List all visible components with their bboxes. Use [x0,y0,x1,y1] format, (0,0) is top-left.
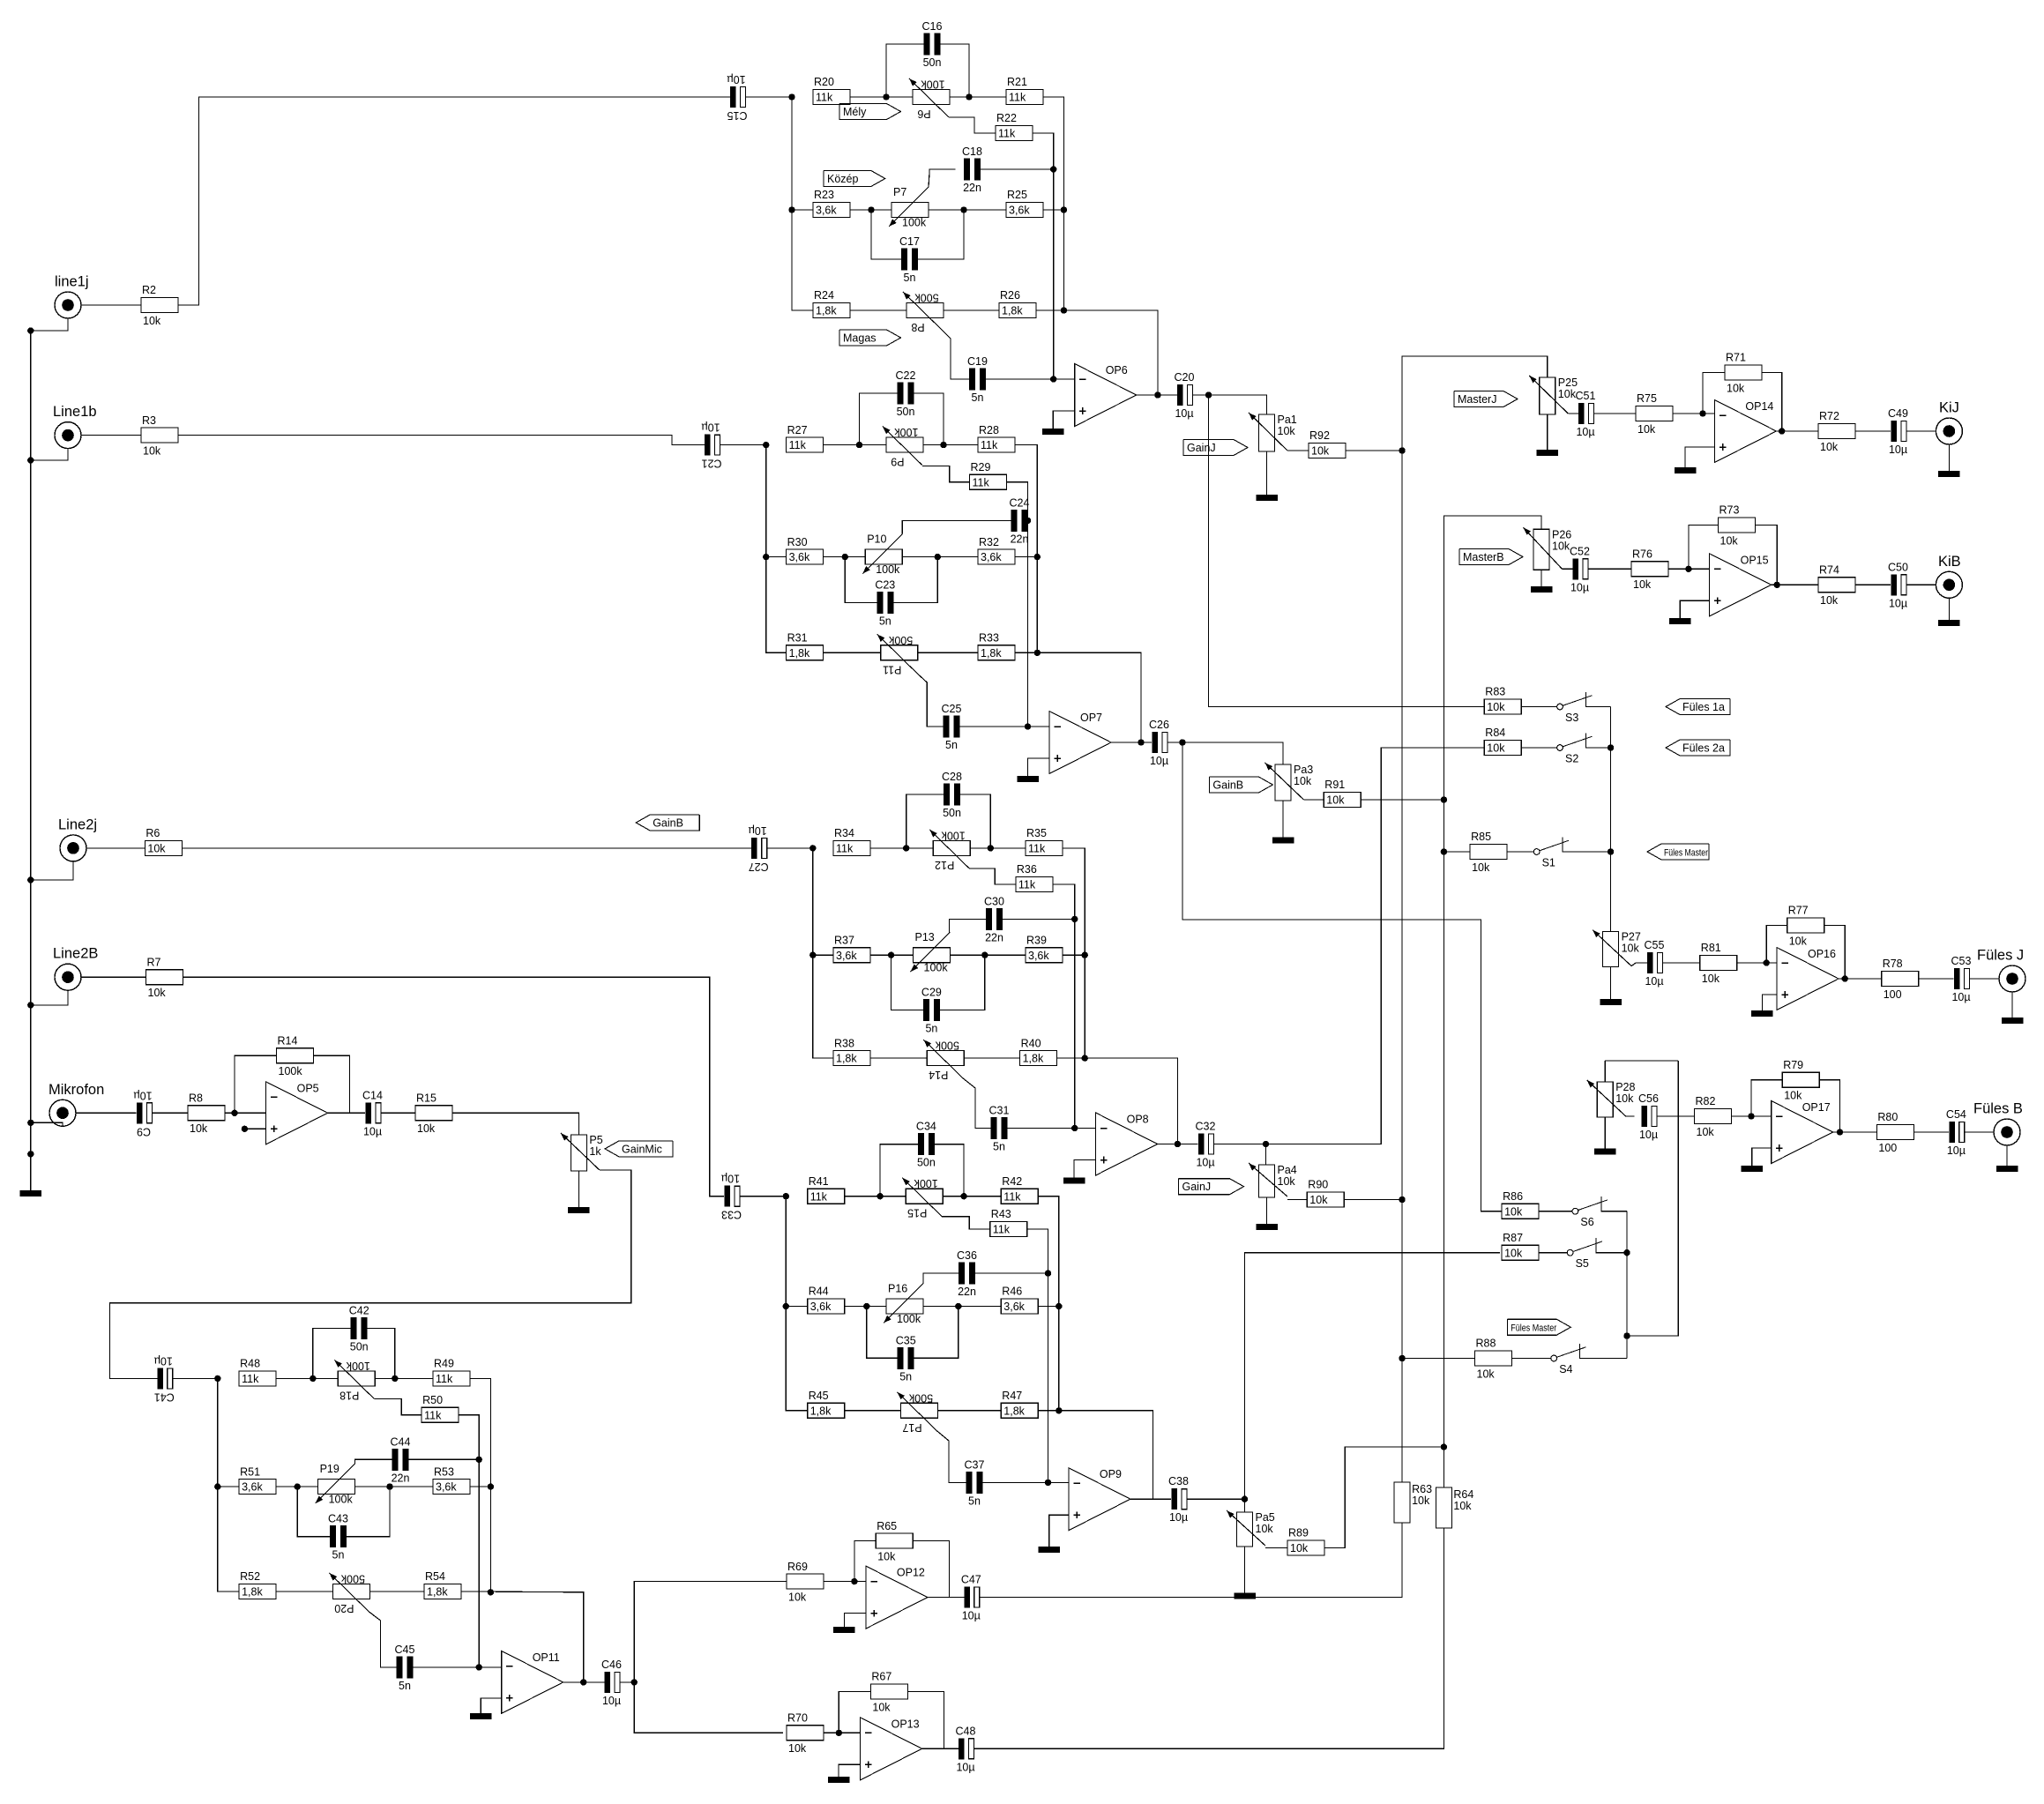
wire [824,556,866,558]
svg-text:10k: 10k [1558,388,1577,400]
potentiometer P12 [929,829,970,871]
svg-text:MasterJ: MasterJ [1458,393,1496,406]
wire riser to P28 [1604,1061,1606,1082]
capacitor C31 [989,1105,1010,1153]
resistor R87 [1502,1232,1539,1260]
svg-text:GainMic: GainMic [622,1143,662,1155]
wire R14 to OP5 out [314,1055,350,1113]
capacitor C29 [921,987,942,1035]
junction [231,1110,237,1116]
wire C42 right [368,1328,395,1378]
svg-text:C47: C47 [961,1574,981,1586]
svg-text:R21: R21 [1007,76,1027,88]
resistor R83 [1484,686,1521,714]
resistor R74 [1818,564,1855,608]
svg-text:10µ: 10µ [1576,426,1594,438]
wire [76,1112,137,1114]
wire [845,1410,901,1412]
svg-text:OP11: OP11 [533,1651,560,1664]
wire [1361,799,1443,801]
wire [218,1486,239,1487]
ground Pa4 [1256,1224,1278,1230]
op-amp OP14 [1714,400,1776,463]
junction [1025,518,1031,524]
wire [1833,1131,1877,1133]
svg-text:11k: 11k [816,92,833,104]
potentiometer P14 [923,1040,964,1082]
capacitor C26 [1149,719,1169,767]
wire Line1b to C21 [178,436,705,445]
op-amp OP12 [866,1566,928,1629]
svg-text:S6: S6 [1580,1216,1593,1228]
junction [27,1151,34,1157]
wire [766,556,787,558]
svg-text:10k: 10k [1820,441,1839,453]
junction [476,1664,482,1670]
svg-text:22n: 22n [963,182,981,194]
potentiometer P8 [903,292,944,334]
svg-text:100k: 100k [279,1065,303,1077]
svg-text:Mikrofon: Mikrofon [48,1082,104,1098]
wire [1906,584,1936,585]
junction [1608,744,1614,750]
svg-text:5n: 5n [399,1680,411,1692]
wire C35 right [914,1307,959,1359]
capacitor C17 [899,235,920,284]
net flag MasterJ [1454,391,1518,407]
svg-text:11k: 11k [998,128,1016,140]
svg-text:P13: P13 [915,931,935,943]
potentiometer Pa3 [1265,763,1314,801]
wire C36 right [975,1272,1048,1274]
connector jack line1j [55,274,89,319]
wire R33 to OP7 out [1015,652,1141,742]
ground P27 [1600,999,1622,1005]
svg-text:50n: 50n [897,406,915,418]
resistor R71 [1725,352,1762,395]
svg-text:P14: P14 [929,1069,948,1081]
switch S3 [1557,692,1593,724]
svg-text:R40: R40 [1021,1037,1041,1049]
svg-text:R64: R64 [1453,1488,1473,1501]
svg-text:11k: 11k [424,1409,442,1421]
wire C28 right [960,794,990,848]
svg-text:10k: 10k [143,444,161,457]
resistor R40 [1020,1037,1057,1065]
wire P28 gnd stub [1604,1117,1606,1149]
svg-text:500k: 500k [908,1391,933,1404]
wire P19 wiper to C44 [355,1459,392,1464]
ground Fules B [1996,1166,2018,1172]
capacitor C45 [395,1644,415,1692]
svg-text:10k: 10k [1311,445,1330,458]
ground P26 [1531,586,1553,593]
wire MasterJ to P25 [1402,356,1548,451]
svg-text:Magas: Magas [843,332,877,344]
wire [355,1486,433,1487]
op-amp OP16 [1777,948,1839,1010]
wire C25 to OP7 minus [960,726,1050,727]
potentiometer P13 [911,931,951,974]
svg-text:R67: R67 [871,1671,891,1683]
wire C28 left [906,794,944,848]
svg-text:P10: P10 [867,533,886,546]
capacitor C51 [1576,390,1596,438]
svg-text:10µ: 10µ [1169,1511,1188,1524]
junction [1399,1196,1405,1203]
svg-text:10µ: 10µ [1645,975,1663,988]
wire [620,1681,634,1683]
svg-text:10µ: 10µ [721,1173,740,1185]
resistor R82 [1695,1095,1732,1138]
wire Pa4 wiper to R90 [1287,1199,1307,1201]
resistor R26 [999,289,1036,317]
junction [27,876,34,883]
wire OP16 minus to R77 [1766,926,1787,964]
svg-text:10µ: 10µ [1639,1129,1658,1141]
wire C44 right [409,1458,480,1460]
svg-text:1,8k: 1,8k [836,1053,857,1065]
wire [1137,394,1177,396]
wire C48 to R64 [974,1528,1444,1748]
resistor R72 [1818,410,1855,453]
wire P16 wiper to C36 [923,1273,959,1283]
svg-text:OP8: OP8 [1127,1114,1149,1126]
junction [1399,1355,1405,1361]
junction [1608,848,1614,854]
svg-text:R6: R6 [145,827,160,839]
svg-text:C41: C41 [154,1390,175,1403]
switch S5 [1567,1238,1602,1270]
svg-text:3,6k: 3,6k [1009,205,1030,217]
resistor R53 [433,1465,470,1494]
junction [809,952,816,958]
wire [970,847,1026,849]
wire OP13 minus to R67 [839,1692,870,1733]
svg-text:C44: C44 [391,1435,411,1448]
wire Fules B select bus [1626,1211,1628,1359]
resistor R25 [1006,189,1043,217]
junction [1025,723,1031,729]
svg-text:3,6k: 3,6k [436,1481,457,1494]
wire C43 left [297,1487,330,1537]
wire [1344,1199,1402,1201]
capacitor C52 [1570,545,1590,593]
svg-text:C34: C34 [916,1121,936,1133]
wire OP15 minus to R73 [1689,526,1719,570]
svg-text:C30: C30 [984,895,1004,907]
wire R73 to OP15 out [1756,526,1778,585]
wire C31 to OP8 minus [1008,1128,1096,1129]
wire net 2a to R84 [1214,748,1485,1144]
ground P5 [568,1207,590,1213]
svg-text:500k: 500k [935,1040,959,1052]
wire [1063,954,1085,956]
wire [1187,1498,1245,1500]
svg-text:R35: R35 [1026,827,1047,839]
wire C16 left [886,44,924,97]
wire [225,1112,266,1114]
resistor R52 [239,1570,276,1599]
wire [1521,706,1556,708]
svg-text:P28: P28 [1615,1081,1635,1093]
ground OP13 [828,1777,850,1783]
svg-text:OP9: OP9 [1100,1468,1122,1480]
svg-text:P18: P18 [339,1389,359,1401]
resistor R24 [813,289,850,317]
resistor R80 [1876,1111,1913,1154]
capacitor C46 [601,1659,622,1707]
svg-text:10k: 10k [1294,775,1312,787]
resistor R8 [188,1092,225,1136]
wire [563,1681,605,1683]
wire [1970,978,2000,980]
svg-text:C27: C27 [749,861,769,873]
wire net 1a to R83 [1209,395,1485,707]
svg-text:Füles B: Füles B [1973,1101,2023,1117]
svg-text:MasterB: MasterB [1463,551,1504,563]
svg-text:C15: C15 [727,109,747,122]
svg-text:22n: 22n [958,1286,976,1298]
resistor R36 [1016,863,1053,891]
wire [375,1377,433,1379]
resistor R38 [833,1037,870,1065]
junction [1623,1249,1630,1256]
wire [923,444,978,446]
ground OP17 [1742,1166,1764,1172]
wire MasterJ bus [1401,451,1403,1359]
junction [888,952,894,958]
net flag GainB C [636,815,699,831]
svg-text:C38: C38 [1168,1475,1189,1487]
op-amp OP13 [861,1718,922,1780]
wire R21 to bus A2 [1043,97,1063,310]
resistor R28 [978,424,1015,452]
svg-text:C17: C17 [899,235,920,248]
svg-text:R72: R72 [1819,410,1839,422]
svg-text:C35: C35 [896,1334,916,1346]
resistor R73 [1719,504,1756,548]
wire net 2b to R87 [1245,1253,1501,1500]
wire P26 gnd stub [1540,570,1542,586]
resistor R6 [145,827,182,855]
wire [1443,851,1470,853]
svg-text:R92: R92 [1309,429,1330,442]
svg-text:1,8k: 1,8k [1003,1405,1025,1417]
junction [935,554,941,560]
svg-text:10k: 10k [1309,1194,1328,1206]
wire [922,1748,959,1749]
resistor R34 [833,827,870,855]
wire R70 to OP13 minus [824,1732,861,1733]
wire OP15 plus gnd [1680,600,1709,618]
svg-text:Pa1: Pa1 [1278,414,1297,426]
svg-text:C26: C26 [1149,719,1169,731]
wire [276,1377,338,1379]
svg-text:10µ: 10µ [749,824,767,837]
wire P12 wiper to R36 [969,868,1016,884]
wire [1539,1252,1567,1254]
capacitor C44 [391,1435,411,1484]
svg-text:1,8k: 1,8k [810,1405,832,1417]
wire [1737,962,1777,964]
wire R63 top to MasterJ bus [1401,1359,1403,1483]
potentiometer Pa5 [1227,1510,1275,1547]
resistor R77 [1787,905,1824,948]
wire [62,1122,63,1124]
junction [960,206,966,212]
wire [86,847,145,849]
capacitor C30 [984,895,1004,943]
junction [988,845,994,851]
junction [1061,307,1067,313]
svg-text:R73: R73 [1719,504,1740,517]
wire R67 to OP13 out [907,1692,944,1749]
svg-text:5n: 5n [968,1495,981,1507]
svg-text:R65: R65 [877,1520,897,1532]
junction [1837,1129,1843,1135]
resistor R47 [1001,1390,1038,1418]
wire C34 right [935,1144,964,1196]
junction [1082,952,1088,958]
resistor R30 [787,536,824,564]
svg-text:C54: C54 [1946,1108,1966,1121]
wire Pa5 gnd stub [1244,1547,1246,1593]
resistor R29 [970,461,1007,489]
svg-text:C31: C31 [989,1105,1010,1117]
junction [1056,1407,1062,1413]
wire Line2B to C33 [183,977,725,1196]
wire P25 wiper to C51 [1568,413,1578,414]
svg-text:R41: R41 [809,1175,829,1188]
svg-text:10k: 10k [1820,594,1839,607]
wire [172,1377,218,1379]
capacitor C21 [701,421,721,470]
wire [1521,747,1556,749]
wire GainMic to C41 [109,1170,630,1378]
net flag GainJ C [1179,1179,1244,1195]
svg-text:GainJ: GainJ [1182,1181,1212,1193]
svg-text:R37: R37 [834,934,854,946]
ground P28 [1594,1149,1616,1155]
wire OP17 minus to R79 [1751,1080,1782,1116]
resistor R50 [421,1394,459,1422]
wire OP9 plus gnd [1049,1515,1069,1547]
wire [938,1410,1002,1412]
junction [1045,1480,1051,1486]
svg-text:R7: R7 [147,956,161,968]
potentiometer P27 [1593,930,1641,967]
wire C20 to Pa1 [1193,395,1267,414]
wire [1657,1115,1695,1117]
svg-text:R63: R63 [1412,1483,1432,1495]
junction [783,1193,789,1199]
capacitor C9 [133,1089,152,1137]
svg-text:S2: S2 [1565,753,1578,765]
svg-text:C22: C22 [896,369,916,382]
resistor R90 [1307,1179,1344,1207]
svg-text:22n: 22n [1011,533,1029,545]
wire P25 gnd stub [1547,414,1548,450]
potentiometer P25 [1529,376,1578,414]
svg-text:50n: 50n [923,56,942,69]
capacitor C35 [896,1334,916,1383]
wire line1j gnd stub [31,318,68,331]
wire [1965,1131,1994,1133]
wire P27 gnd stub [1610,967,1612,999]
svg-text:KiJ: KiJ [1939,400,1959,416]
junction [856,442,862,448]
junction [788,206,794,212]
svg-text:10k: 10k [1697,1126,1715,1138]
capacitor C48 [956,1725,976,1773]
junction [1779,428,1785,434]
svg-text:OP13: OP13 [891,1718,920,1730]
svg-text:R33: R33 [979,632,999,645]
capacitor C15 [727,73,747,122]
resistor R49 [433,1358,470,1386]
svg-text:R44: R44 [809,1286,829,1298]
junction [1071,916,1078,922]
svg-text:10µ: 10µ [1570,581,1589,593]
junction [1441,848,1447,854]
wire [328,1112,365,1114]
svg-text:11k: 11k [789,439,807,451]
net flag Magas [839,330,901,346]
potentiometer P28 [1587,1080,1636,1117]
svg-text:10µ: 10µ [1947,1144,1966,1157]
svg-text:100: 100 [1884,988,1902,1001]
svg-text:10k: 10k [417,1122,436,1135]
ground OP7 [1017,776,1039,782]
svg-text:R49: R49 [434,1358,454,1370]
svg-text:100k: 100k [897,1313,921,1325]
wire [81,976,146,978]
capacitor C55 [1645,939,1665,988]
svg-text:10k: 10k [1633,578,1652,591]
svg-text:R80: R80 [1877,1111,1898,1123]
junction [27,327,34,333]
wire [1855,430,1891,432]
junction [488,1589,494,1595]
capacitor C53 [1951,955,1972,1003]
svg-text:Line2j: Line2j [58,816,97,832]
net flag Közép [824,171,885,187]
svg-text:3,6k: 3,6k [789,551,810,563]
svg-text:GainB: GainB [1212,779,1243,791]
junction [763,442,769,448]
wire R42 to bus D2 [1038,1196,1059,1411]
wire net 1b to R86 [1182,742,1502,1211]
svg-text:R39: R39 [1026,934,1047,946]
svg-text:10k: 10k [1326,794,1345,807]
svg-text:R70: R70 [787,1712,808,1725]
wire [845,1196,906,1197]
ground OP15 [1669,618,1691,624]
wire MasterB to P26 [1443,516,1541,800]
resistor R63 [1394,1482,1432,1523]
wire OP11 plus gnd [481,1698,502,1713]
capacitor C42 [349,1304,369,1353]
ground Pa3 [1272,837,1294,843]
wire R50 to bus E1 [459,1415,479,1667]
resistor R65 [876,1520,913,1563]
svg-text:3,6k: 3,6k [816,205,837,217]
svg-text:Füles 1a: Füles 1a [1682,701,1725,713]
resistor R75 [1636,392,1673,436]
svg-text:C55: C55 [1645,939,1665,951]
junction [1179,739,1185,745]
